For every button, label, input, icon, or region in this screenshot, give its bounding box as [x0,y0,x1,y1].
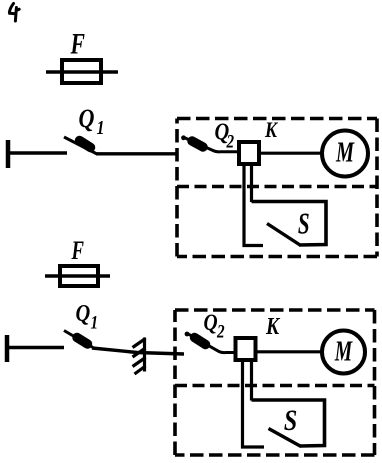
mechanical link right line K to S box (bottom) [250,361,253,401]
svg-text:S: S [298,205,310,240]
wire K to motor (bottom) [256,350,323,353]
svg-text:S: S [284,403,297,436]
switch S blade (bottom) [269,429,302,447]
wire Q1 to box (top) [96,152,177,155]
switch Q1 blade (top) [64,137,97,154]
svg-text:2: 2 [216,321,225,342]
partition dashed line (bottom box) [175,384,375,387]
switch Q2 blade (top) [181,135,238,151]
fuse F1 value label F [70,27,85,60]
switch S blade (top) [267,224,300,246]
mechanical link left line K to S (top) [244,165,263,246]
fuse F2 value label F [71,236,84,265]
wire supply to Q1 (bottom) [8,346,64,349]
fuse F1 [46,60,118,83]
svg-text:1: 1 [97,116,105,138]
svg-text:Q: Q [79,105,95,133]
contactor coil K (top) [239,142,259,164]
figure number 4 [9,4,19,22]
switch S label (top) [298,205,310,240]
mechanical link left line K to S (bottom) [243,361,265,447]
svg-text:Q: Q [76,299,91,326]
contactor coil K label (bottom) [265,312,280,339]
contactor coil K label (top) [264,118,278,142]
enclosure dashed box (bottom) [175,310,375,455]
switch S enclosure outline (top) [252,202,327,246]
enclosure dashed box (top) [177,119,377,257]
motor M2 (bottom) [322,331,365,374]
svg-text:F: F [71,236,84,265]
switch Q2 label (bottom) [204,310,225,342]
wire Q1 to fault mark (bottom) [92,348,184,354]
svg-text:K: K [264,118,278,142]
switch S label (bottom) [284,403,297,436]
svg-text:F: F [70,27,85,60]
svg-text:1: 1 [91,312,99,333]
svg-text:Q: Q [204,310,218,336]
mechanical link right line K to S box (top) [250,165,253,202]
node supply terminal (bottom) [5,335,10,362]
contactor coil K (bottom) [236,338,256,360]
switch Q2 label (top) [215,118,235,152]
partition dashed line (top box) [177,185,377,188]
switch Q1 blade (bottom) [64,331,93,348]
wire supply to Q1 (top) [9,151,67,154]
svg-text:M: M [334,336,353,367]
fuse F2 [45,266,110,286]
motor M1 (top) [322,131,368,177]
svg-text:2: 2 [226,131,235,152]
switch S enclosure outline (bottom) [252,400,325,446]
switch Q1 label (top) [79,105,105,138]
switch Q2 blade (bottom) [185,332,235,353]
svg-text:K: K [265,312,280,339]
fault hatch mark on wire (bottom) [133,338,146,375]
switch Q1 label (bottom) [76,299,99,332]
node supply terminal (top) [6,140,11,168]
svg-text:M: M [335,137,354,168]
wire K to motor (top) [259,152,323,155]
